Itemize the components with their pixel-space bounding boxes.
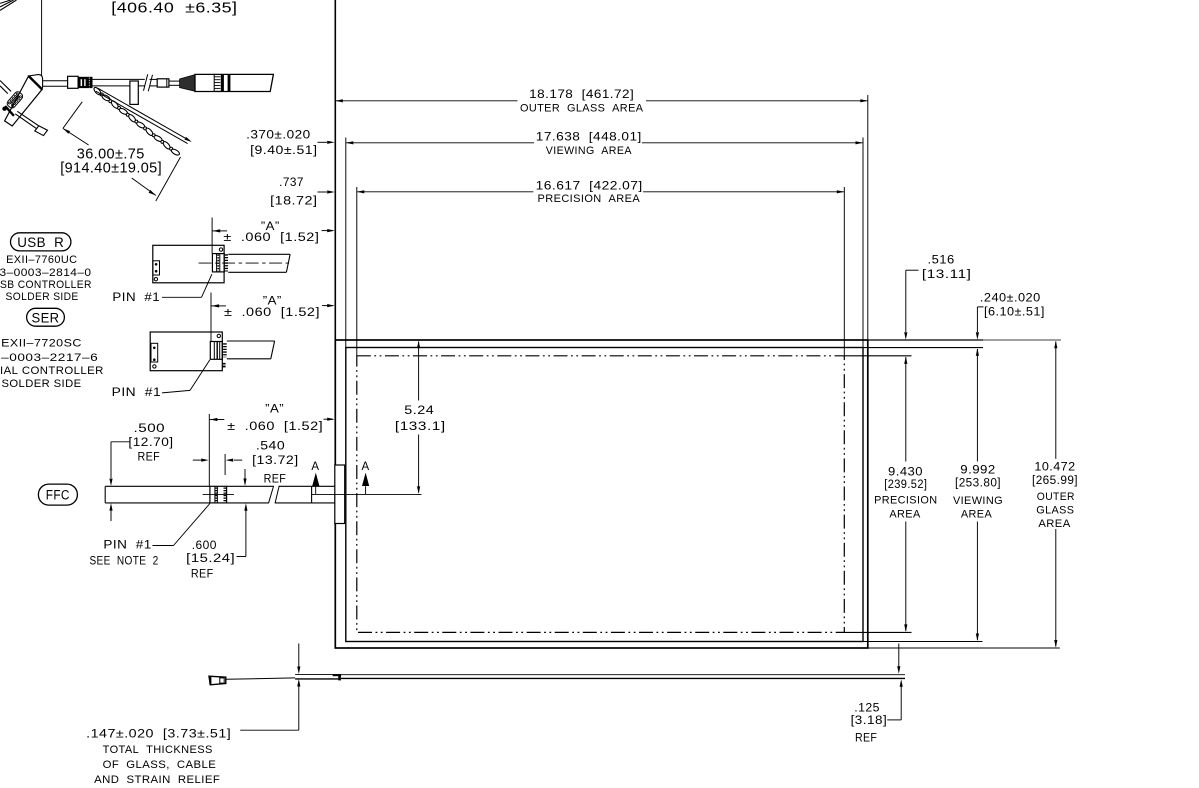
svg-text:PRECISION: PRECISION [874, 495, 937, 507]
ext viewing top right [863, 347, 983, 349]
dim "A" row 3 left arrow [209, 419, 224, 421]
dim "A" row 2 extension line [210, 293, 212, 342]
svg-text:REF: REF [855, 733, 877, 745]
svg-text:.516: .516 [928, 255, 955, 267]
svg-text:REF: REF [138, 452, 161, 464]
svg-text:17.638 [448.01]: 17.638 [448.01] [536, 129, 642, 143]
leader .516 [905, 270, 907, 332]
serial board solder tabs [222, 363, 225, 365]
USB plug band 1 [221, 75, 224, 91]
svg-text:± .060 [1.52]: ± .060 [1.52] [223, 232, 319, 244]
side view FFC connector [209, 676, 226, 685]
svg-text:”A”: ”A” [265, 404, 284, 416]
svg-text:[13.72]: [13.72] [252, 455, 299, 467]
label oval USB R [11, 233, 71, 251]
serial controller board outline [150, 332, 222, 371]
label oval FFC [38, 484, 77, 505]
dim "A" row 2 right arrow [322, 305, 333, 307]
cable segment connector to ferrite [43, 80, 68, 82]
svg-text:10.472: 10.472 [1034, 461, 1075, 473]
cable break symbol (top) [144, 74, 148, 91]
dim .147 upper arrow [298, 644, 300, 667]
FFC cable break symbol [269, 486, 274, 503]
serial PIN #1 leader [162, 390, 190, 393]
serial board mounting hole bottom [153, 365, 156, 368]
jack screw shaft lower [17, 111, 42, 128]
cable segment to strap [93, 78, 145, 80]
svg-text:± .060 [1.52]: ± .060 [1.52] [224, 307, 320, 319]
USB plug boot [180, 75, 195, 92]
dim .500 elbow [111, 441, 131, 443]
svg-text:SEE NOTE 2: SEE NOTE 2 [89, 556, 158, 568]
svg-text:[12.70]: [12.70] [128, 437, 173, 449]
ext viewing bottom right [863, 641, 983, 643]
dim .600 upper arrow [244, 469, 246, 479]
dim .500 upper arrow [110, 442, 112, 478]
svg-text:AREA: AREA [889, 509, 921, 521]
label oval SER [27, 308, 65, 326]
dim "A" row 1 extension line [211, 218, 213, 254]
dim .500 lower arrow [110, 510, 112, 521]
FFC tail top edge [105, 485, 210, 487]
USB plug grip lines [214, 76, 220, 78]
svg-text:16.617 [422.07]: 16.617 [422.07] [536, 178, 643, 192]
side view glass top line [341, 674, 905, 676]
svg-text:–0003–2217–6: –0003–2217–6 [1, 352, 98, 364]
svg-text:FFC: FFC [46, 487, 70, 502]
twisted pair straight wires [98, 88, 190, 140]
svg-text:A: A [311, 461, 319, 473]
USB board mounting hole top [219, 248, 222, 251]
ferrite block [68, 76, 79, 88]
extension line right precision area [843, 187, 845, 356]
extension line right viewing area [862, 138, 864, 348]
section cut line A right [365, 486, 367, 494]
FFC centerline through glass [312, 493, 422, 495]
svg-text:OUTER: OUTER [1037, 491, 1075, 503]
dim 9.992 line [976, 349, 978, 462]
hanging strap [130, 81, 138, 104]
jack screw shaft upper [0, 81, 11, 92]
side view cable over glass top [295, 674, 341, 676]
inline plug [157, 79, 169, 87]
svg-text:IAL CONTROLLER: IAL CONTROLLER [0, 365, 104, 377]
svg-text:EXII–7760UC: EXII–7760UC [6, 254, 77, 266]
FFC connector centerline [203, 493, 234, 495]
svg-text:[13.11]: [13.11] [922, 269, 972, 281]
dim 10.472 line [1055, 342, 1057, 459]
dim 36.00 ext line 1 [63, 102, 82, 129]
svg-text:VIEWING: VIEWING [953, 495, 1003, 507]
svg-text:VIEWING AREA: VIEWING AREA [546, 145, 632, 157]
outer glass area outline (front view) [335, 340, 868, 648]
ext line 406.40 left [41, 0, 43, 76]
side view glass bottom line [341, 677, 905, 679]
dim "A" row 2 left arrow [211, 305, 226, 307]
dim .125 upper arrow [898, 644, 900, 667]
FFC tail bottom edge [105, 502, 210, 504]
dim .147 leader [240, 729, 299, 731]
leader .737 margin [318, 191, 328, 193]
dim .540 left arrow [193, 459, 201, 461]
dim "A" row 1 left arrow [212, 230, 227, 232]
leader .370 margin [318, 141, 328, 143]
dim 5.24 line [418, 342, 420, 401]
viewing area outline [346, 348, 863, 642]
extension line left viewing area [345, 138, 347, 348]
jack screw nut [3, 107, 6, 110]
cable splitter block [78, 77, 92, 88]
svg-text:PRECISION AREA: PRECISION AREA [538, 193, 641, 205]
svg-text:A: A [362, 461, 370, 473]
side view strain relief hook [333, 674, 342, 676]
dim .125 lower arrow [900, 687, 902, 720]
USB controller board outline [153, 245, 224, 282]
USB board mounting hole bottom [154, 278, 157, 281]
dim .125 elbow [887, 719, 901, 721]
USB PIN #1 leader [162, 296, 202, 298]
svg-text:AREA: AREA [1038, 518, 1071, 530]
svg-text:GLASS: GLASS [1036, 505, 1074, 517]
cable segment after break [150, 78, 158, 80]
USB plug body [195, 74, 273, 91]
side view cable [226, 678, 295, 679]
dim .147 lower arrow [298, 687, 300, 731]
serial board mounting hole top [217, 334, 220, 337]
ext outer glass bottom right [868, 647, 1060, 649]
svg-text:.240±.020: .240±.020 [980, 293, 1041, 305]
svg-text:9.430: 9.430 [888, 467, 923, 479]
svg-text:AREA: AREA [961, 509, 993, 521]
svg-text:5.24: 5.24 [404, 405, 434, 417]
svg-text:.370±.020: .370±.020 [246, 129, 311, 141]
svg-text:.500: .500 [134, 423, 166, 435]
svg-text:[239.52]: [239.52] [884, 479, 927, 491]
dim line 18.178 outer glass width [335, 100, 517, 102]
section arrow A right [362, 473, 369, 486]
serial board cable tail [227, 340, 275, 342]
ext precision top right [844, 355, 911, 357]
svg-text:18.178 [461.72]: 18.178 [461.72] [529, 87, 634, 101]
svg-text:[914.40±19.05]: [914.40±19.05] [60, 160, 162, 176]
dim .540 tick line [224, 454, 226, 475]
svg-text:[265.99]: [265.99] [1032, 475, 1078, 487]
dim .600 elbow [237, 556, 246, 558]
precision area outline (phantom line) [357, 356, 845, 633]
dim "A" row 3 right arrow [324, 418, 334, 420]
svg-text:.147±.020 [3.73±.51]: .147±.020 [3.73±.51] [86, 729, 231, 741]
svg-text:9.992: 9.992 [960, 465, 995, 477]
svg-text:[6.10±.51]: [6.10±.51] [984, 306, 1045, 318]
section arrow A left [312, 473, 319, 486]
dim line 17.638 viewing width [346, 142, 534, 144]
svg-text:AND STRAIN RELIEF: AND STRAIN RELIEF [94, 774, 220, 786]
svg-text:[18.72]: [18.72] [270, 196, 317, 208]
section cut line A left [315, 486, 317, 494]
twisted pair wire chain [93, 86, 102, 96]
thin cable to USB plug [169, 80, 180, 82]
ext outer glass top right [868, 339, 983, 341]
svg-text:[15.24]: [15.24] [186, 553, 235, 565]
dim 9.430 line [905, 357, 907, 462]
svg-text:SOLDER SIDE: SOLDER SIDE [2, 378, 82, 390]
dim .540 right arrow [234, 459, 242, 461]
svg-text:[133.1]: [133.1] [395, 421, 446, 433]
svg-text:[9.40±.51]: [9.40±.51] [250, 145, 317, 157]
svg-text:SOLDER SIDE: SOLDER SIDE [6, 291, 79, 303]
svg-text:REF: REF [264, 473, 287, 485]
svg-text:3–0003–2814–0: 3–0003–2814–0 [0, 267, 92, 279]
serial connector D-sub pad [6, 90, 24, 109]
dim line 16.617 precision width [357, 191, 534, 193]
svg-text:PIN #1: PIN #1 [112, 387, 162, 399]
USB board FFC connector body [212, 254, 224, 272]
svg-text:PIN #1: PIN #1 [103, 540, 151, 552]
serial connector hood [29, 75, 43, 90]
svg-text:”A”: ”A” [263, 295, 282, 307]
leader .240 [976, 307, 978, 332]
serial board edge connector [151, 343, 158, 362]
svg-text:[406.40 ±6.35]: [406.40 ±6.35] [111, 0, 237, 16]
serial connector hood band [29, 76, 42, 89]
dim 36.00 line seg 2 [132, 178, 156, 195]
svg-text:USB R: USB R [17, 235, 64, 250]
USB cable centerline [199, 262, 290, 264]
jack screw cap lower [35, 126, 48, 136]
extension line left precision area [356, 187, 358, 356]
svg-text:[253.80]: [253.80] [955, 478, 1001, 490]
svg-text:.125: .125 [854, 703, 880, 715]
USB plug collar line [213, 74, 215, 91]
FFC section box edge [311, 486, 313, 503]
dim 36.00 line seg 1 [63, 128, 89, 145]
svg-text:OUTER GLASS AREA: OUTER GLASS AREA [520, 103, 644, 115]
svg-text:.600: .600 [192, 540, 217, 552]
FFC tail left end cap [104, 486, 106, 503]
strain relief block [335, 465, 345, 524]
dim 36.00 ext line 2 [156, 157, 181, 201]
dim "A" row 1 right arrow [322, 230, 334, 232]
svg-text:[3.18]: [3.18] [851, 715, 888, 727]
extension line left outer glass / cable dim [334, 0, 336, 340]
svg-text:± .060 [1.52]: ± .060 [1.52] [227, 421, 323, 433]
FFC PIN #1 leader [153, 545, 174, 547]
ext precision bottom right [844, 631, 911, 633]
svg-text:EXII–7720SC: EXII–7720SC [1, 338, 82, 350]
serial connector body (angled) [5, 76, 43, 126]
FFC end connector [210, 486, 227, 503]
dim .600 lower arrow [245, 511, 247, 557]
side view cable over glass bottom [295, 678, 340, 680]
svg-text:.737: .737 [279, 177, 304, 189]
serial board FFC connector body [210, 342, 222, 360]
dim "A" row 3 extension line [208, 414, 210, 486]
svg-text:OF GLASS, CABLE: OF GLASS, CABLE [103, 759, 217, 771]
USB plug band 2 [228, 75, 231, 91]
serial connector face band [5, 106, 14, 116]
svg-text:.540: .540 [256, 441, 285, 453]
USB board edge connector [153, 261, 160, 275]
USB board cable tail [228, 253, 290, 255]
extension line right outer glass [867, 95, 869, 340]
svg-text:SB CONTROLLER: SB CONTROLLER [0, 279, 92, 291]
svg-text:REF: REF [191, 569, 214, 581]
cable assembly corner lines [0, 0, 11, 3]
svg-text:TOTAL THICKNESS: TOTAL THICKNESS [103, 744, 213, 756]
svg-text:SER: SER [32, 310, 60, 325]
svg-text:PIN #1: PIN #1 [112, 292, 160, 304]
